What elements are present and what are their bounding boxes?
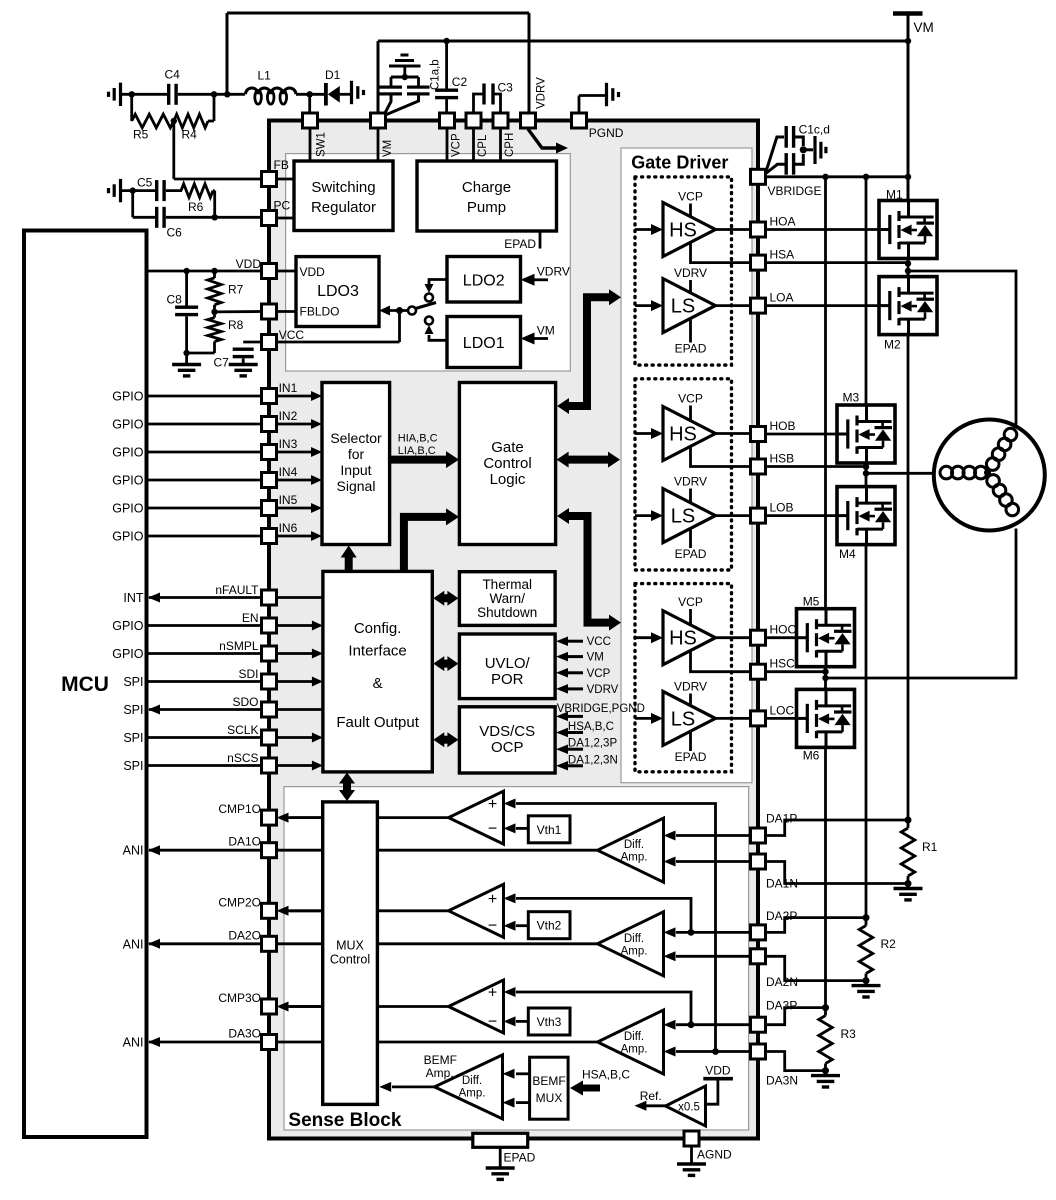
wire phase A (908, 271, 1016, 431)
wire CMP2 plus input (504, 893, 695, 935)
wire SDO (123, 695, 323, 717)
wire HOC gate (766, 636, 797, 639)
svg-text:SDO: SDO (232, 695, 258, 709)
wire DA2P input (664, 927, 752, 937)
wire DA2N sense (766, 956, 867, 980)
pin HOA (751, 222, 766, 237)
wire DA2P sense (766, 918, 867, 933)
svg-text:HSC: HSC (770, 657, 796, 671)
svg-text:Warn/: Warn/ (489, 591, 525, 606)
pin IN3 (262, 445, 277, 460)
resistor R4 (174, 94, 214, 141)
Vth2 reference block (528, 912, 570, 939)
node C5 left (130, 187, 136, 193)
pin label VCC (279, 328, 305, 342)
svg-text:ANI: ANI (123, 937, 144, 951)
svg-text:LDO2: LDO2 (463, 273, 505, 290)
wire LOA gate (766, 304, 880, 307)
resistor R1 (901, 820, 937, 884)
motor (3-phase BLDC) (934, 420, 1045, 531)
wire HSA source return (691, 242, 751, 263)
svg-text:HSA,B,C: HSA,B,C (568, 721, 614, 733)
pin label HSB (770, 452, 795, 466)
svg-text:HS: HS (669, 220, 697, 242)
wire HSA output (715, 228, 750, 231)
charge pump block (417, 161, 557, 231)
switching regulator block (294, 161, 393, 231)
pin IN2 (262, 417, 277, 432)
wire IN1 to selector (277, 381, 323, 401)
wire M4 source column (865, 545, 868, 918)
pin IN5 (262, 501, 277, 516)
gate driver container (621, 148, 752, 783)
node R2 bottom (863, 977, 870, 984)
svg-text:ANI: ANI (123, 1036, 144, 1050)
svg-text:C5: C5 (137, 176, 153, 190)
op-amp LSA (low side driver) (663, 279, 715, 333)
arrow gcl-gd pair C elbow (557, 508, 621, 631)
wire GPIO to IN2 (112, 418, 262, 432)
wire IN3 to selector (277, 437, 323, 457)
pin DA1P (751, 828, 766, 843)
svg-text:HOA: HOA (770, 215, 796, 229)
svg-text:Input: Input (340, 462, 371, 478)
svg-text:C8: C8 (167, 293, 183, 307)
wire CMP3O to pin (277, 1002, 323, 1012)
wire DA1N sense (766, 862, 909, 884)
svg-text:HSB: HSB (770, 452, 795, 466)
svg-text:GPIO: GPIO (112, 647, 144, 661)
arrow UVLO input VCP (556, 668, 611, 680)
wire CMP1O to pin (277, 813, 323, 823)
pin label HOB (770, 419, 796, 433)
pin FBLDO (262, 304, 277, 319)
pin VDD (262, 264, 277, 279)
pin label LOB (770, 501, 794, 515)
svg-text:DA3P: DA3P (766, 999, 797, 1013)
svg-text:Shutdown: Shutdown (477, 605, 537, 620)
svg-text:Vth1: Vth1 (537, 823, 562, 837)
pin CMP1O (262, 810, 277, 825)
wire DA1N input (664, 857, 752, 867)
node R5-R4 (171, 118, 177, 124)
Vth1 reference block (528, 816, 570, 843)
sense block title (288, 1110, 401, 1131)
svg-text:CMP1O: CMP1O (218, 802, 261, 816)
svg-text:VDRV: VDRV (536, 77, 548, 109)
label VCP (HSC supply) (678, 595, 703, 625)
arrow BEMF MUX out 2 (503, 1098, 530, 1108)
svg-text:&: & (373, 675, 383, 692)
svg-text:LS: LS (671, 506, 695, 528)
svg-text:Diff.: Diff. (624, 839, 644, 851)
wire gnd to C4 (122, 93, 168, 96)
svg-text:VDS/CS: VDS/CS (479, 723, 535, 740)
svg-text:EPAD: EPAD (675, 342, 707, 356)
MCU block (24, 231, 147, 1138)
pin label VM (382, 140, 394, 157)
svg-text:AGND: AGND (697, 1148, 732, 1162)
pin label CMP2O (218, 895, 261, 909)
svg-text:HOC: HOC (770, 623, 797, 637)
pin label PC (274, 199, 291, 213)
svg-text:M3: M3 (843, 391, 860, 405)
ground (R2) (852, 981, 881, 997)
svg-text:VDD: VDD (705, 1064, 731, 1078)
pin DA2P (751, 925, 766, 940)
svg-text:HSA: HSA (770, 248, 795, 262)
wire FBLDO (215, 310, 263, 313)
svg-text:FB: FB (274, 158, 289, 172)
node VBRIDGE-VM column (905, 174, 911, 180)
svg-text:VDRV: VDRV (537, 265, 570, 279)
gate control logic block (459, 383, 555, 545)
svg-text:HOB: HOB (770, 419, 796, 433)
svg-text:Gate Driver: Gate Driver (631, 153, 728, 173)
pin nSCS (262, 758, 277, 773)
capacitor C4 (165, 68, 181, 105)
wire M6 source column (824, 747, 827, 1007)
wire L1 to D1 (296, 93, 324, 96)
wire CPL riser inner (472, 128, 475, 161)
svg-text:+: + (488, 796, 497, 813)
svg-text:R4: R4 (182, 128, 198, 142)
wire nFAULT to INT (123, 583, 323, 605)
BEMF MUX block (530, 1057, 569, 1119)
pin label HSA (770, 248, 795, 262)
node R7-R8 (211, 309, 217, 315)
wire HSC source return (691, 650, 751, 672)
EPAD pad (473, 1133, 536, 1167)
node VBRIDGE-M5 column (822, 174, 828, 180)
node C4 left (129, 91, 135, 97)
svg-text:M4: M4 (839, 547, 856, 561)
transistor M5 (797, 595, 855, 667)
pin FB (262, 172, 277, 187)
pin label DA2N (766, 975, 798, 989)
svg-text:VCP: VCP (678, 595, 703, 609)
label VDRV (LSC supply) (674, 680, 707, 706)
ground (C5 network) (109, 179, 121, 202)
wire GPIO to IN6 (112, 530, 262, 544)
svg-text:Diff.: Diff. (624, 1031, 644, 1043)
pin label CMP3O (218, 991, 261, 1005)
svg-text:BEMF: BEMF (424, 1053, 457, 1067)
capacitor C2 (435, 41, 467, 113)
node VDD-C8 (183, 268, 189, 274)
svg-text:HS: HS (669, 424, 697, 446)
pin label LOC (770, 703, 795, 717)
wire GPIO to IN3 (112, 446, 262, 460)
pin IN6 (262, 529, 277, 544)
svg-text:nFAULT: nFAULT (215, 583, 259, 597)
svg-text:VM: VM (914, 20, 934, 35)
arrow UVLO input VM (556, 652, 604, 664)
svg-text:EPAD: EPAD (504, 1151, 536, 1165)
pin CPL (466, 113, 481, 128)
wire gnd to C5 (122, 189, 156, 192)
node phase A (905, 268, 911, 274)
svg-text:LS: LS (671, 708, 695, 730)
svg-text:Pump: Pump (467, 199, 506, 216)
svg-text:Vth2: Vth2 (537, 919, 562, 933)
VM arrow into LDO1 (521, 323, 555, 344)
switch arm (416, 303, 437, 309)
wire CMP2O to pin (277, 906, 323, 916)
wire GPIO to IN4 (112, 474, 262, 488)
inductor L1 (246, 69, 296, 105)
svg-text:VDRV: VDRV (674, 266, 707, 280)
pin VCP (440, 113, 455, 128)
wire LSC output (715, 717, 750, 720)
svg-text:MCU: MCU (61, 673, 109, 696)
resistor R6 (181, 184, 213, 214)
svg-text:EPAD: EPAD (675, 547, 707, 561)
svg-text:L1: L1 (258, 69, 272, 83)
wire EN (112, 611, 323, 633)
ground (R1) (894, 884, 923, 900)
wire CMP3 output (377, 1005, 448, 1008)
svg-text:UVLO/: UVLO/ (485, 655, 531, 672)
node R3 bottom (822, 1067, 829, 1074)
wire SW1 riser (308, 94, 311, 114)
wire M3 column (865, 177, 868, 405)
pin IN1 (262, 389, 277, 404)
wire DA1O output (148, 845, 598, 855)
svg-text:LS: LS (671, 296, 695, 318)
arrow Ref output (634, 1089, 665, 1111)
label HIA LIA bus (398, 433, 438, 457)
op-amp HSB (high side driver) (663, 407, 715, 461)
svg-text:VCP: VCP (587, 668, 611, 680)
wire IN6 to selector (277, 521, 323, 541)
resistor R8 (187, 312, 244, 353)
node phase C (822, 675, 828, 681)
arrow UVLO input VCC (556, 636, 611, 648)
svg-text:DA1,2,3P: DA1,2,3P (568, 738, 618, 750)
arrow switch to LDO3 FBLDO (379, 306, 408, 316)
capacitor C8 (167, 271, 199, 365)
transistor M2 (879, 277, 937, 352)
wire C4 to L1 node (178, 93, 245, 96)
svg-text:POR: POR (491, 671, 524, 688)
svg-text:LOA: LOA (770, 291, 794, 305)
svg-text:VCP: VCP (678, 190, 703, 204)
wire nSCS (123, 751, 323, 773)
pin label HSC (770, 657, 796, 671)
svg-text:LIA,B,C: LIA,B,C (398, 445, 436, 457)
pin PC (262, 211, 277, 226)
pin DA1N (751, 854, 766, 869)
wire VDRV feed arrow (528, 129, 568, 154)
svg-text:R3: R3 (841, 1027, 857, 1041)
pin label DA3O (123, 1027, 261, 1050)
ground (PGND) (579, 83, 619, 113)
pin LOA (751, 298, 766, 313)
svg-text:Vth3: Vth3 (537, 1015, 562, 1029)
resistor R7 (208, 271, 244, 312)
svg-text:ANI: ANI (123, 844, 144, 858)
svg-text:Sense Block: Sense Block (288, 1110, 401, 1131)
arrow config to gate control elbow (404, 508, 459, 571)
svg-text:DA2P: DA2P (766, 909, 797, 923)
svg-text:EPAD: EPAD (675, 750, 707, 764)
svg-text:C4: C4 (165, 68, 181, 82)
config interface block (323, 571, 432, 772)
svg-text:M6: M6 (803, 749, 820, 763)
wire DA2N input (664, 951, 752, 961)
svg-text:Amp.: Amp. (621, 1044, 648, 1056)
svg-text:VDRV: VDRV (674, 475, 707, 489)
pin label DA1P (766, 812, 797, 826)
arrow into LSA (635, 300, 663, 311)
svg-text:DA1O: DA1O (228, 835, 261, 849)
pin label VDRV (536, 77, 548, 109)
svg-text:R1: R1 (922, 840, 938, 854)
pin CMP3O (262, 999, 277, 1014)
wire LOB gate (766, 514, 838, 517)
arrow BEMF MUX out 1 (503, 1069, 530, 1079)
wire CMP3 plus input (504, 987, 695, 1028)
node HSA (905, 260, 911, 266)
svg-text:Charge: Charge (462, 179, 511, 196)
resistor R3 (819, 1008, 856, 1071)
op-amp LSB (low side driver) (663, 489, 715, 543)
pin label SW1 (316, 132, 328, 157)
svg-text:GPIO: GPIO (112, 530, 144, 544)
pin label VBRIDGE (768, 184, 822, 198)
svg-text:IN1: IN1 (279, 381, 298, 395)
node R1 bottom (905, 880, 912, 887)
switch contact LDO2 (425, 294, 433, 302)
node switch pole (396, 307, 403, 314)
capacitor C6 (133, 191, 182, 240)
pin SDI (262, 674, 277, 689)
svg-text:D1: D1 (325, 68, 341, 82)
pin DA3N (751, 1044, 766, 1059)
arrow into HSC (635, 632, 663, 643)
svg-text:EPAD: EPAD (504, 237, 536, 251)
wire FB to regulator (277, 178, 295, 181)
transistor M3 (837, 391, 895, 464)
wire DA2O output (148, 939, 598, 949)
svg-text:R5: R5 (133, 128, 149, 142)
transistor M1 (879, 188, 937, 259)
pin VCC (262, 335, 277, 350)
label EPAD (LSC) (675, 730, 707, 764)
svg-text:VDRV: VDRV (674, 680, 707, 694)
wire HSB source return (691, 446, 751, 467)
label EPAD (LSA) (675, 318, 707, 356)
svg-text:VM: VM (382, 140, 394, 157)
wire FBLDO pin to LDO3 (277, 310, 297, 313)
UVLO POR block (459, 634, 555, 699)
switch contact LDO1 (425, 317, 433, 325)
svg-text:CMP2O: CMP2O (218, 895, 261, 909)
arrow config to selector (341, 546, 357, 572)
ground (after D1) (352, 81, 364, 104)
svg-text:OCP: OCP (491, 739, 524, 756)
svg-text:Logic: Logic (490, 471, 526, 488)
svg-text:IN2: IN2 (279, 409, 298, 423)
svg-text:VCP: VCP (678, 392, 703, 406)
arrow gcl-gd pair A elbow (557, 289, 621, 414)
svg-text:HSA,B,C: HSA,B,C (582, 1068, 630, 1082)
wire nSMPL (112, 639, 323, 661)
svg-text:DA3N: DA3N (766, 1074, 798, 1088)
wire FB feedback (174, 121, 262, 179)
gate driver title (631, 153, 728, 173)
wire CMP1 plus input (504, 799, 719, 1055)
pin VBRIDGE (751, 169, 766, 184)
pin SDO (262, 702, 277, 717)
svg-text:VDRV: VDRV (587, 684, 619, 696)
svg-text:CMP3O: CMP3O (218, 991, 261, 1005)
svg-text:VM: VM (587, 652, 604, 664)
LDO3 block (296, 257, 379, 327)
wire IN5 to selector (277, 493, 323, 513)
node R1 top (905, 817, 912, 824)
op-amp HSC (high side driver) (663, 611, 715, 665)
svg-text:R6: R6 (188, 200, 204, 214)
svg-text:nSCS: nSCS (227, 751, 258, 765)
wire VCP riser inner (446, 128, 449, 161)
pin label HOA (770, 215, 796, 229)
node VM rail junction (905, 38, 911, 44)
svg-text:VCC: VCC (587, 636, 611, 648)
wire DA3O output (148, 1037, 598, 1047)
wire VBRIDGE rail (766, 175, 909, 178)
svg-text:Diff.: Diff. (462, 1075, 482, 1087)
wire SCLK (123, 723, 323, 745)
x0.5 reference amp (666, 1086, 706, 1126)
svg-text:DA2O: DA2O (228, 928, 261, 942)
svg-text:Thermal: Thermal (482, 577, 532, 592)
LDO2 block (447, 257, 521, 303)
VDD supply (ref) (703, 1064, 733, 1105)
wire LSB output (715, 514, 750, 517)
wire DA3N input (664, 1047, 752, 1057)
MUX control block (323, 802, 378, 1105)
svg-text:Control: Control (330, 953, 370, 967)
arrow into HSA (635, 224, 663, 235)
pin label VDD (left) (236, 257, 262, 271)
arrow UVLO input VDRV (556, 684, 619, 696)
wire M1-M2 link (907, 259, 910, 277)
wire D1 to ground (0, 0, 1, 1)
resistor R2 (859, 918, 896, 981)
node phase B (863, 470, 869, 476)
svg-text:R7: R7 (228, 283, 244, 297)
ground (C8) (172, 365, 201, 376)
pin HOB (751, 427, 766, 442)
node R2 top (863, 914, 870, 921)
pin VDRV (521, 113, 536, 128)
svg-text:VM: VM (537, 323, 555, 337)
VDS CS OCP block (459, 707, 555, 773)
diff amp 1 (598, 818, 664, 882)
wire DA1P sense (766, 820, 909, 836)
diff amp 2 (598, 912, 664, 976)
wire M3-M4 link (865, 463, 868, 487)
thermal warn shutdown block (459, 572, 555, 626)
wire VDD pin to LDO3 (277, 270, 297, 273)
top rail wire (227, 13, 529, 113)
svg-text:C1a,b: C1a,b (430, 59, 442, 90)
node C2 top (443, 38, 449, 44)
svg-text:+: + (488, 891, 497, 908)
ground (EPAD) (486, 1168, 515, 1179)
